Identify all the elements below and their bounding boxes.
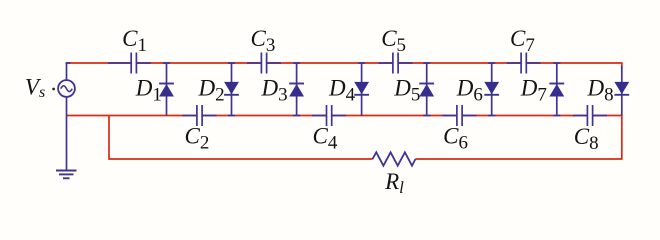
svg-text:C7: C7 [510, 26, 535, 56]
svg-text:D2: D2 [198, 76, 225, 106]
svg-text:Vs: Vs [25, 74, 45, 101]
svg-text:C5: C5 [381, 26, 406, 56]
svg-text:C2: C2 [185, 124, 210, 154]
svg-text:D5: D5 [393, 76, 420, 106]
svg-text:D4: D4 [328, 76, 356, 106]
svg-text:D1: D1 [135, 76, 162, 106]
svg-text:C8: C8 [574, 124, 599, 154]
svg-text:C3: C3 [251, 26, 276, 56]
svg-text:D8: D8 [587, 76, 614, 106]
svg-text:C6: C6 [443, 124, 468, 154]
svg-text:C4: C4 [313, 124, 338, 154]
svg-text:D3: D3 [261, 76, 288, 106]
svg-text:D7: D7 [520, 76, 547, 106]
svg-text:C1: C1 [122, 26, 147, 56]
svg-text:Rl: Rl [384, 169, 404, 197]
svg-text:D6: D6 [456, 76, 483, 106]
